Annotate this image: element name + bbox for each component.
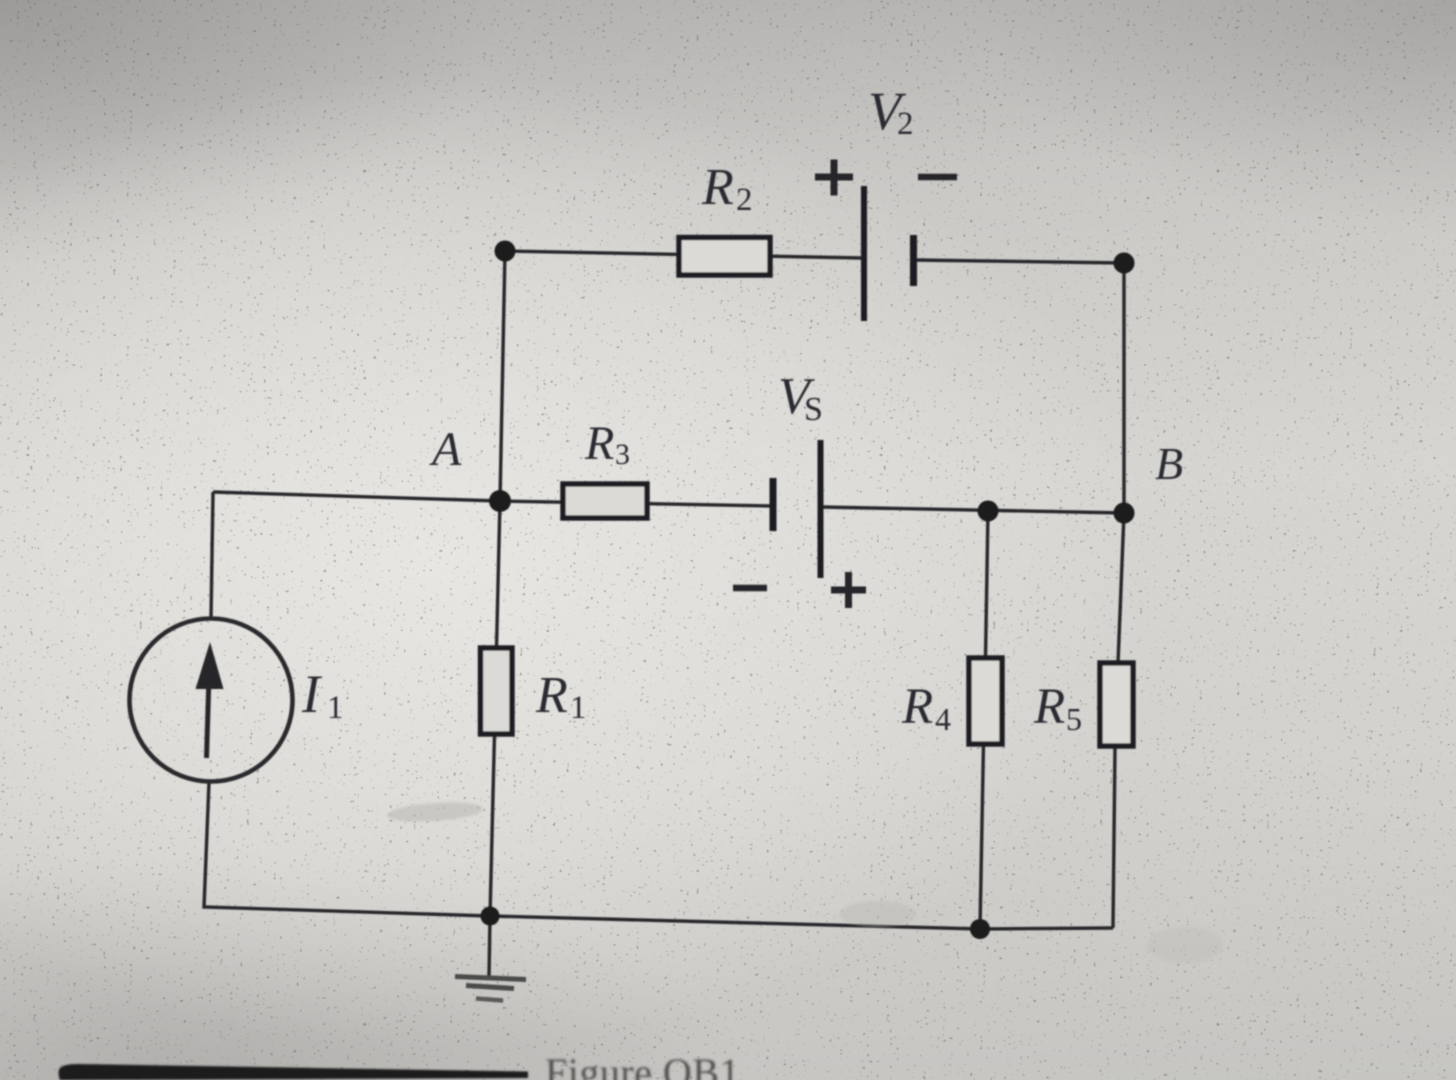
svg-text:I: I	[301, 664, 323, 724]
svg-text:B: B	[1155, 438, 1183, 489]
svg-text:3: 3	[615, 438, 630, 471]
svg-text:2: 2	[736, 182, 753, 218]
svg-text:1: 1	[570, 690, 587, 726]
svg-text:R: R	[584, 417, 614, 470]
svg-text:4: 4	[935, 701, 951, 737]
svg-text:Figure QB1: Figure QB1	[545, 1050, 740, 1080]
svg-text:2: 2	[897, 106, 914, 142]
svg-text:1: 1	[327, 690, 344, 726]
svg-text:R: R	[701, 159, 734, 216]
svg-text:5: 5	[1066, 701, 1082, 737]
svg-text:R: R	[535, 667, 568, 724]
svg-text:R: R	[1033, 679, 1065, 735]
svg-text:A: A	[429, 423, 462, 476]
svg-text:R: R	[901, 679, 933, 735]
svg-text:S: S	[804, 391, 823, 428]
